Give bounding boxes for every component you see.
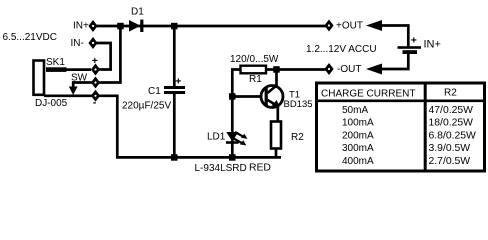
svg-text:100mA: 100mA xyxy=(342,118,374,129)
svg-text:1.2...12V ACCU: 1.2...12V ACCU xyxy=(306,44,377,55)
svg-text:120/0...5W: 120/0...5W xyxy=(230,54,279,65)
svg-text:+OUT: +OUT xyxy=(336,21,363,32)
svg-text:-: - xyxy=(93,97,97,109)
svg-text:RED: RED xyxy=(249,162,271,173)
svg-text:SW: SW xyxy=(71,73,88,84)
svg-text:47/0.25W: 47/0.25W xyxy=(429,105,474,116)
svg-text:BD135: BD135 xyxy=(284,99,313,110)
svg-text:CHARGE CURRENT: CHARGE CURRENT xyxy=(321,88,415,99)
svg-text:400mA: 400mA xyxy=(342,156,374,167)
svg-text:R1: R1 xyxy=(249,74,262,85)
svg-text:3.9/0.5W: 3.9/0.5W xyxy=(429,143,471,154)
svg-text:50mA: 50mA xyxy=(342,105,368,116)
svg-text:L-934LSRD: L-934LSRD xyxy=(195,163,247,174)
svg-text:+: + xyxy=(175,76,181,88)
svg-text:6.8/0.25W: 6.8/0.25W xyxy=(429,130,477,141)
svg-text:+: + xyxy=(92,55,98,67)
svg-text:C1: C1 xyxy=(148,86,161,97)
svg-text:300mA: 300mA xyxy=(342,143,374,154)
svg-text:IN+: IN+ xyxy=(73,21,89,32)
svg-text:IN+: IN+ xyxy=(424,38,441,50)
svg-text:220µF/25V: 220µF/25V xyxy=(122,100,171,111)
svg-text:DJ-005: DJ-005 xyxy=(35,98,68,109)
svg-text:LD1: LD1 xyxy=(207,132,226,143)
svg-text:2.7/0.5W: 2.7/0.5W xyxy=(429,156,471,167)
svg-text:6.5...21VDC: 6.5...21VDC xyxy=(3,32,57,43)
svg-text:R2: R2 xyxy=(444,88,457,99)
svg-text:R2: R2 xyxy=(291,132,304,143)
svg-text:-OUT: -OUT xyxy=(337,64,361,75)
svg-text:IN-: IN- xyxy=(71,38,84,49)
svg-text:D1: D1 xyxy=(131,7,144,18)
svg-text:+: + xyxy=(411,35,417,47)
svg-text:200mA: 200mA xyxy=(342,130,374,141)
svg-text:SK1: SK1 xyxy=(46,57,65,68)
svg-text:18/0.25W: 18/0.25W xyxy=(429,118,474,129)
